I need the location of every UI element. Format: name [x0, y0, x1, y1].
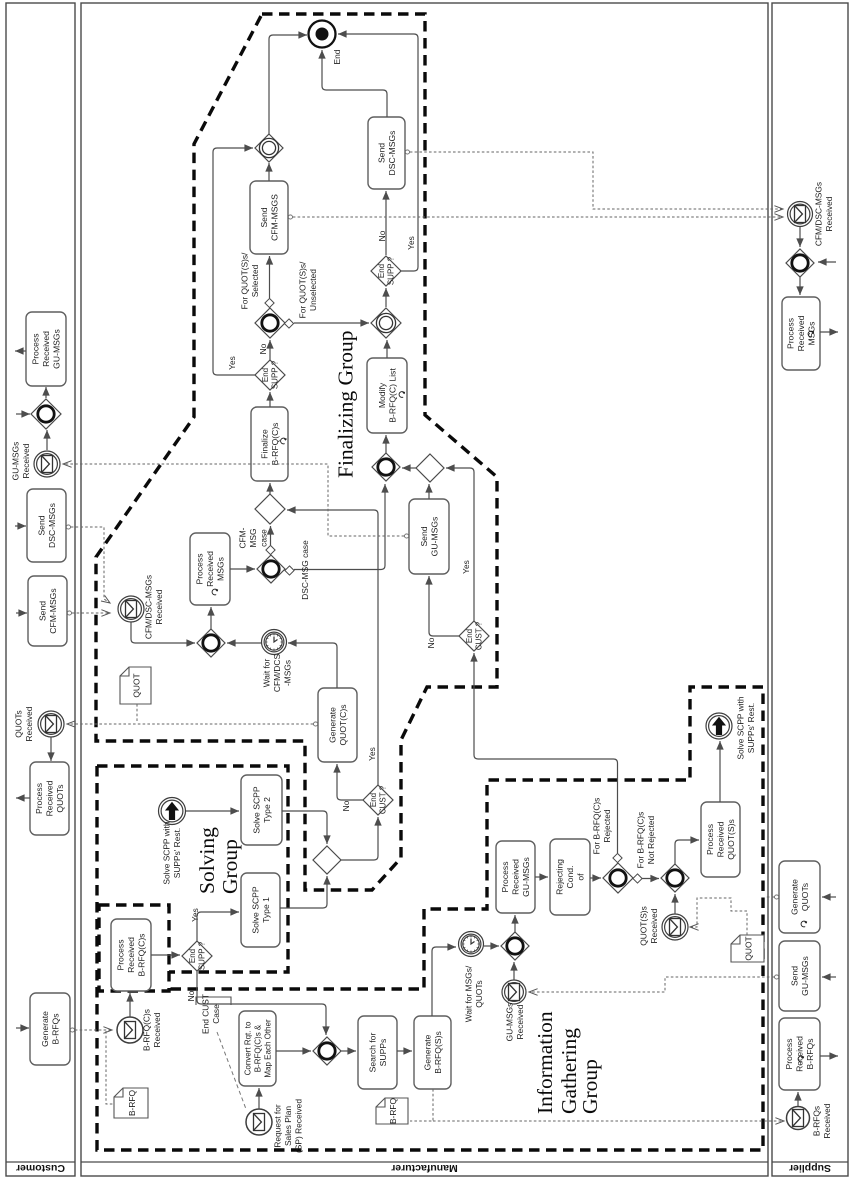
wire merge to Modify list: [385, 435, 387, 453]
decision End CUST ? (lower): [363, 785, 393, 815]
svg-text:QUOT: QUOT: [743, 936, 753, 960]
wire stub out of Process Received GU-MSGs: [15, 350, 26, 352]
conditional marker Not Rejected: [633, 874, 642, 883]
svg-text:Convert Rqt. toB-RFQ(C)s &Map: Convert Rqt. toB-RFQ(C)s &Map Each Other: [243, 1019, 272, 1078]
wire End SUPP? Yes to Solve Type 1: [197, 912, 239, 941]
wire Modify list to event gateway: [386, 340, 388, 358]
svg-text:No: No: [186, 990, 196, 1001]
wire stub out of Process Received QUOTs: [16, 797, 30, 799]
association Generate B-RFQ(S)s to B-RFQ document: [410, 1089, 433, 1121]
svg-text:Manufacturer: Manufacturer: [391, 1162, 458, 1174]
wire End CUST? Yes to diamond: [446, 468, 474, 621]
wire Process Received B-RFQ(C)s to End SUPP?: [151, 954, 180, 956]
wire Rejecting Cond. to split gateway: [590, 877, 601, 879]
event QUOTs Received (Customer): [38, 711, 64, 737]
svg-text:ProcessReceivedB-RFQ(C)s: ProcessReceivedB-RFQ(C)s: [116, 934, 147, 977]
svg-text:For QUOT(S)s/Unselected: For QUOT(S)s/Unselected: [298, 261, 319, 318]
svg-text:GenerateQUOT(C)s: GenerateQUOT(C)s: [327, 704, 348, 745]
svg-text:Yes: Yes: [190, 908, 200, 922]
svg-text:B-RFQ: B-RFQ: [127, 1089, 137, 1116]
event Request for Sales Plan (SP) Received: [246, 1109, 272, 1135]
event timer Wait for MSGs/QUOTs: [459, 932, 484, 957]
wire Selected branch to Send CFM-MSGS: [269, 256, 271, 298]
task Process Received B-RFQ(C)s: [111, 919, 151, 991]
task Generate B-RFQs (Customer): [30, 993, 70, 1065]
wire Rejected branch to End CUST? (upper): [474, 653, 618, 853]
wire stub into Generate QUOTs: [822, 896, 836, 898]
task Search for SUPPs: [358, 1016, 397, 1089]
svg-text:GenerateB-RFQs: GenerateB-RFQs: [40, 1011, 61, 1047]
conditional marker on Unselected branch: [284, 319, 293, 328]
svg-text:No: No: [426, 637, 436, 648]
svg-text:Yes: Yes: [461, 560, 471, 574]
gateway merge (Not Rejected): [661, 864, 689, 892]
wire End SUPP? No to split gateway: [269, 340, 271, 360]
wire merge gateway to End event: [269, 35, 307, 134]
wire GU-MSGs Received to gateway: [46, 430, 48, 450]
gateway merge (before Search for SUPPs): [313, 1037, 341, 1065]
task Send GU-MSGs (Manufacturer): [409, 499, 449, 574]
wire stub into Send GU-MSGs (Supplier): [822, 976, 836, 978]
event timer Wait for CFM/DCS-MSGs: [262, 630, 287, 655]
gateway event-based (before End SUPP?): [371, 308, 401, 338]
conditional marker DSC-MSG case: [285, 566, 294, 575]
wire stub into Generate B-RFQs: [16, 1027, 29, 1029]
document B-RFQ (manufacturer): [376, 1097, 408, 1124]
svg-text:Yes: Yes: [406, 236, 416, 250]
svg-text:ProcessReceivedB-RFQs: ProcessReceivedB-RFQs: [784, 1036, 815, 1072]
message flow Send DSC-MSGs (Manufacturer) to CFM/DSC-MSGs Received (Supplier): [405, 152, 783, 209]
task Solve SCPP Type 1: [241, 873, 280, 947]
svg-text:QUOT(S)sReceived: QUOT(S)sReceived: [639, 906, 660, 946]
task Send DSC-MSGs (Manufacturer): [368, 117, 405, 189]
decision End SUPP ? (left): [255, 360, 285, 390]
svg-text:GenerateQUOTs: GenerateQUOTs: [789, 879, 810, 915]
task Send CFM-MSGS (Manufacturer): [250, 181, 288, 254]
gateway merge (Wait/GU-MSGs): [501, 932, 529, 960]
svg-text:ProcessReceivedGU-MSGs: ProcessReceivedGU-MSGs: [31, 329, 62, 369]
wire stub into Send CFM-MSGs: [16, 612, 27, 614]
event QUOT(S)s Received: [662, 914, 688, 940]
gateway split For QUOT(S)s: [255, 308, 285, 338]
wire start event to Solve SCPP Type 2: [186, 810, 239, 812]
wire gateway to Process Received GU-MSGs: [514, 915, 516, 932]
gateway CFM/DSC case split: [257, 555, 285, 583]
wire event gateway to End SUPP?: [385, 288, 387, 307]
event CFM/DSC-MSGs Received (Supplier): [788, 202, 813, 227]
gateway For B-RFQ(C)s split: [603, 863, 633, 893]
task Process Received QUOT(S)s: [701, 802, 740, 877]
svg-text:QUOT: QUOT: [131, 673, 141, 697]
svg-text:Solve SCPP withSUPPs' Rest.: Solve SCPP withSUPPs' Rest.: [162, 821, 183, 884]
wire gateway to Process Received MSGs (Supplier): [799, 277, 801, 295]
message flow Send CFM-MSGS (Manufacturer) to CFM/DSC-MSGs Received (Supplier): [288, 216, 783, 218]
wire Search to Generate B-RFQ(S)s: [397, 1050, 412, 1052]
conditional marker CFM-MSG case: [266, 545, 275, 554]
document B-RFQ (customer side): [114, 1088, 148, 1118]
wire DSC-MSG case to merge gateway (loops right): [294, 484, 385, 570]
wire B-RFQs Received to Process Received B-RFQs: [797, 1092, 799, 1106]
gateway merge (above Modify): [372, 453, 400, 481]
wire CFM/DSC-MSGs Received to gateway: [131, 622, 195, 643]
svg-text:B-RFQ: B-RFQ: [388, 1097, 398, 1124]
svg-text:No: No: [341, 800, 351, 811]
association Generate QUOTs to QUOT document: [766, 896, 779, 898]
message flow Send DSC-MSGs (Customer) to CFM/DSC-MSGs Received (Manufacturer): [66, 527, 110, 603]
wire QUOT(S)s Received to merge gateway: [674, 894, 676, 914]
wire QUOTs Received to Process Received QUOTs: [50, 737, 52, 761]
svg-text:Information: Information: [533, 1011, 557, 1114]
wire Solve Type 2 to diamond: [282, 811, 327, 844]
message flow Send GU-MSGs (Manufacturer) to GU-MSGs Received (Customer): [63, 464, 409, 536]
event GU-MSGs Received (Manufacturer): [502, 980, 526, 1004]
svg-text:B-RFQsReceived: B-RFQsReceived: [812, 1103, 833, 1138]
svg-text:Finalizing Group: Finalizing Group: [334, 331, 358, 479]
group inner dashed box (Process Received B-RFQ(C)s): [99, 905, 169, 991]
document QUOT (supplier side): [731, 935, 764, 962]
group Information Gathering Group boundary: [97, 687, 763, 1150]
svg-text:ProcessReceivedQUOT(S)s: ProcessReceivedQUOT(S)s: [705, 819, 736, 860]
conditional marker on Selected branch: [265, 298, 274, 307]
wire End SUPP? No to gateway below: [197, 971, 326, 1035]
event CFM/DSC-MSGs Received (Manufacturer): [118, 596, 144, 622]
wire End CUST? Yes to CFM diamond: [287, 510, 378, 785]
event End (Manufacturer): [309, 21, 336, 48]
svg-text:GU-MSGsReceived: GU-MSGsReceived: [11, 442, 32, 481]
wire End CUST? No to Send GU-MSGs: [429, 576, 459, 636]
wire Process Received MSGs to CFM/DSC gateway: [230, 568, 255, 570]
diamond merge (Solve outputs): [313, 846, 341, 874]
task Process Received QUOTs (Customer): [30, 762, 69, 835]
association End CUST Case to Request event: [217, 1032, 246, 1109]
wire merge gateway to Process Received QUOT(S)s: [675, 840, 699, 864]
event end Solve SCPP with SUPPs' Rest. (IG): [706, 713, 732, 739]
gateway merge (below Process Received MSGs): [197, 629, 225, 657]
wire Not Rejected branch to merge gateway: [642, 878, 659, 880]
task Convert Rqt. to B-RFQ(C)s & Map Each Other: [239, 1011, 276, 1086]
wire stub into Send DSC-MSGs: [15, 525, 26, 527]
svg-text:End: End: [332, 49, 342, 64]
wire B-RFQ(C)s Received to Process Received B-RFQ(C)s: [129, 993, 131, 1017]
svg-text:Solve SCPP withSUPPs' Rest.: Solve SCPP withSUPPs' Rest.: [736, 696, 757, 759]
event B-RFQ(C)s Received: [117, 1017, 143, 1043]
svg-text:B-RFQ(C)sReceived: B-RFQ(C)sReceived: [142, 1009, 163, 1051]
wire gateway to Search for SUPPs: [341, 1050, 356, 1052]
svg-text:Customer: Customer: [16, 1162, 65, 1174]
gateway merge (Customer): [31, 399, 61, 429]
wire Finalize to End SUPP?: [269, 392, 271, 407]
svg-text:GenerateB-RFQ(S)s: GenerateB-RFQ(S)s: [422, 1031, 443, 1074]
wire Send GU-MSGs to diamond: [428, 484, 430, 499]
task Send CFM-MSGs (Customer): [28, 576, 67, 646]
decision End CUST ? (upper): [459, 621, 489, 651]
association B-RFQ document (customer): [106, 1031, 113, 1104]
task Generate B-RFQ(S)s: [414, 1016, 451, 1089]
wire stub into Customer gateway: [16, 413, 30, 415]
conditional marker Rejected: [613, 853, 622, 862]
annotation End CUST Case bracket: [196, 997, 231, 1005]
message flow Send CFM-MSGs (Customer) to CFM/DSC-MSGs Received (Manufacturer): [67, 612, 110, 614]
message flow Generate B-RFQs (Customer) to B-RFQ(C)s Received: [70, 1029, 112, 1031]
event GU-MSGs Received (Customer): [34, 451, 60, 477]
task Process Received GU-MSGs (Manufacturer): [496, 841, 535, 913]
svg-text:Group: Group: [578, 1059, 602, 1114]
wire event to gateway (Supplier): [799, 227, 801, 247]
task Send DSC-MSGs (Customer): [27, 489, 66, 562]
diamond merge (CFM path): [255, 494, 285, 524]
decision End SUPP ? (Solving): [182, 941, 212, 971]
svg-text:GU-MSGsReceived: GU-MSGsReceived: [505, 1003, 525, 1042]
event start Solve SCPP with SUPPs' Rest.: [159, 798, 186, 825]
svg-text:Yes: Yes: [227, 356, 237, 370]
wire Request event to Convert task: [258, 1088, 260, 1109]
task Process Received GU-MSGs (Customer): [26, 312, 66, 386]
wire stub out of Process Received MSGs (Supplier): [820, 331, 838, 333]
svg-text:QUOTsReceived: QUOTsReceived: [14, 706, 35, 741]
svg-text:Yes: Yes: [367, 747, 377, 761]
task Solve SCPP Type 2: [241, 775, 282, 845]
wire stub out of Process Received B-RFQs: [820, 1055, 838, 1057]
task Generate QUOT(C)s: [318, 688, 357, 762]
wire Convert task to gateway: [276, 1050, 311, 1052]
wire Send CFM-MSGS to merge gateway: [268, 163, 270, 181]
svg-text:Group: Group: [218, 839, 242, 894]
wire Generate QUOT(C)s to timer: [288, 643, 337, 688]
task Modify B-RFQ(C) List: [367, 358, 407, 433]
message flow B-RFQ document to B-RFQs Received (Supplier): [433, 1120, 784, 1122]
task Process Received MSGs (Supplier): [782, 297, 820, 370]
task Generate QUOTs (Supplier): [779, 861, 820, 933]
svg-text:Solving: Solving: [195, 827, 219, 894]
wire Generate B-RFQ(S)s to timer: [432, 947, 456, 1016]
task Rejecting Cond. of: [550, 839, 590, 915]
wire Send DSC-MSGs to End event: [322, 50, 387, 117]
svg-text:ProcessReceivedQUOTs: ProcessReceivedQUOTs: [34, 780, 65, 816]
message flow Send GU-MSGs (Supplier) to GU-MSGs Received (Manufacturer): [529, 977, 779, 992]
wire Process Received QUOT(S)s to end event: [719, 741, 721, 802]
wire diamond to merge gateway: [402, 467, 416, 469]
wire timer to gateway: [484, 945, 499, 947]
gateway merge (Supplier top): [786, 249, 814, 277]
message flow Generate QUOT(C)s to QUOTs Received (Customer): [67, 723, 318, 725]
wire diamond to End CUST?: [341, 817, 378, 860]
task Send GU-MSGs (Supplier): [779, 941, 820, 1011]
svg-text:CFM-MSGcase: CFM-MSGcase: [237, 527, 268, 548]
wire End SUPP? Yes to merge gateway: [213, 148, 255, 375]
wire Unselected branch to event gateway: [294, 322, 369, 324]
svg-text:ProcessReceivedGU-MSGs: ProcessReceivedGU-MSGs: [500, 857, 531, 897]
wire End SUPP? Yes to End event: [338, 34, 418, 271]
wire End SUPP? No to Send DSC-MSGs: [385, 191, 387, 255]
task Process Received MSGs (Manufacturer): [190, 533, 230, 605]
pool Supplier: [772, 3, 848, 1176]
wire gateway to Process Received MSGs: [210, 607, 212, 629]
association QUOT document to message flow: [136, 704, 138, 722]
diamond merge (right of gateway): [416, 454, 444, 482]
task Process Received B-RFQs (Supplier): [779, 1018, 820, 1090]
wire End CUST? No to Generate QUOT(C)s: [337, 764, 363, 800]
wire stub into Supplier gateway: [818, 261, 836, 263]
svg-text:Supplier: Supplier: [789, 1162, 831, 1174]
pool Manufacturer: [81, 3, 768, 1176]
wire Customer gateway to Process Received GU-MSGs: [45, 387, 47, 398]
decision End SUPP ? (upper right): [371, 256, 401, 286]
wire GU-MSGs Received to gateway: [513, 962, 515, 980]
document QUOT (upper): [120, 667, 151, 704]
gateway merge before End: [255, 134, 283, 162]
svg-text:No: No: [258, 343, 268, 354]
event B-RFQs Received (Supplier): [787, 1107, 810, 1130]
message flow QUOT document to QUOT(S)s Received: [690, 898, 747, 935]
wire timer to gateway: [227, 642, 261, 644]
svg-text:For B-RFQ(C)sNot Rejected: For B-RFQ(C)sNot Rejected: [636, 812, 657, 869]
task Finalize B-RFQ(C)s: [251, 407, 288, 481]
svg-text:Request forSales Plan(SP) Rece: Request forSales Plan(SP) Received: [272, 1099, 303, 1153]
pool Customer: [6, 3, 75, 1176]
wire CFM-MSG case to diamond: [270, 526, 272, 545]
wire Solve Type 1 to diamond: [280, 876, 327, 908]
wire CFM diamond to Finalize: [269, 483, 271, 494]
svg-text:DSC-MSG case: DSC-MSG case: [300, 540, 310, 600]
wire Process Received GU-MSGs to Rejecting Cond.: [535, 876, 548, 878]
group Solving Group boundary: [97, 766, 288, 972]
group Finalizing Group boundary: [96, 14, 497, 890]
